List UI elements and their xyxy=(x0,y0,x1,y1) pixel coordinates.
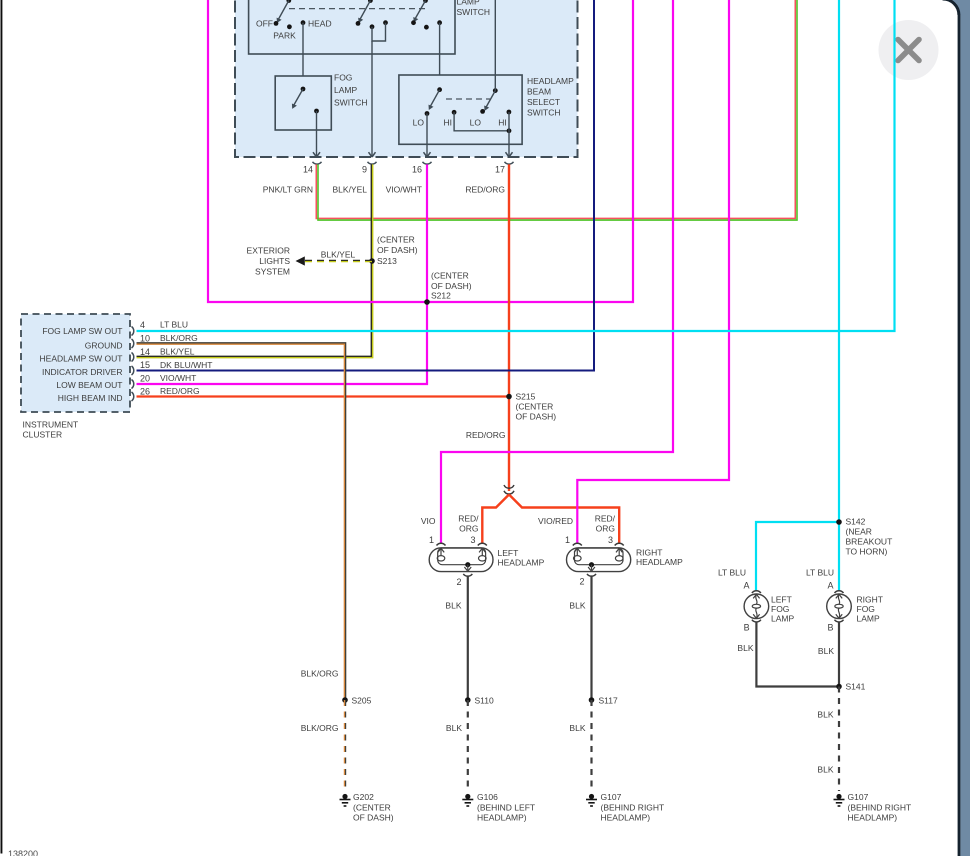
svg-text:OFF: OFF xyxy=(256,19,273,29)
dashed BLK/ORG wire S205 to G202 xyxy=(301,700,346,791)
right fog lamp pin A connector xyxy=(806,568,844,594)
svg-text:OF DASH): OF DASH) xyxy=(516,412,557,422)
right headlamp high filament xyxy=(615,548,623,561)
svg-text:HEAD: HEAD xyxy=(308,19,332,29)
contact HI A with link to pin17 wire xyxy=(444,110,510,131)
svg-text:LT BLU: LT BLU xyxy=(718,568,746,578)
ground G107 fog xyxy=(834,792,912,823)
svg-text:HEADLAMP: HEADLAMP xyxy=(527,76,574,86)
contact HI B xyxy=(498,110,511,128)
svg-text:BLK/YEL: BLK/YEL xyxy=(333,185,368,195)
splice S141 xyxy=(836,682,865,692)
wire beam B feed from top xyxy=(494,0,496,91)
wire VIO/WHT branch horizontal xyxy=(208,0,633,302)
headlamp beam select switch box xyxy=(399,75,574,144)
contact PARK xyxy=(273,24,296,40)
contact HEAD xyxy=(301,19,332,29)
fog switch arm xyxy=(292,87,306,109)
wire BLK left headlamp to S110 xyxy=(445,576,467,700)
svg-text:15: 15 xyxy=(140,360,150,370)
wire group3 to beam select switch xyxy=(439,23,441,90)
splice S117 xyxy=(589,696,618,706)
svg-text:GROUND: GROUND xyxy=(85,340,123,350)
svg-text:RED/: RED/ xyxy=(595,514,616,524)
switch arm 1 (OFF/PARK/HEAD) xyxy=(277,0,292,23)
svg-text:S141: S141 xyxy=(846,682,866,692)
splice S213 xyxy=(369,235,418,267)
svg-text:B: B xyxy=(744,623,750,633)
left fog lamp pin A connector xyxy=(718,568,761,594)
fog switch contact xyxy=(314,109,319,114)
svg-text:VIO/WHT: VIO/WHT xyxy=(386,185,422,195)
svg-text:(CENTER: (CENTER xyxy=(377,235,415,245)
wire PNK/LT GRN pin14 to top right xyxy=(263,0,797,220)
svg-text:2: 2 xyxy=(456,577,461,587)
svg-text:FOG LAMP SW OUT: FOG LAMP SW OUT xyxy=(42,326,122,336)
wire LT BLU fog feed from top xyxy=(756,0,839,591)
ground G107 xyxy=(586,792,664,823)
wire BLK/ORG cluster pin10 to S205 xyxy=(137,343,346,700)
left headlamp low filament xyxy=(437,548,445,561)
svg-text:10: 10 xyxy=(140,334,150,344)
svg-text:16: 16 xyxy=(412,165,422,175)
svg-text:ORG: ORG xyxy=(596,524,615,534)
modal rounded corner xyxy=(942,0,970,15)
right fog lamp xyxy=(827,594,883,624)
svg-text:VIO: VIO xyxy=(421,516,436,526)
dashed BLK wire S110 to G106 xyxy=(446,700,468,791)
svg-text:S212: S212 xyxy=(431,291,451,301)
svg-text:HEADLAMP: HEADLAMP xyxy=(636,557,683,567)
svg-text:INSTRUMENT: INSTRUMENT xyxy=(23,420,79,430)
cluster pin 4 xyxy=(132,320,189,336)
left headlamp xyxy=(429,548,544,572)
svg-text:BLK: BLK xyxy=(817,710,833,720)
dashed BLK/YEL branch to exterior lights system xyxy=(296,250,373,266)
figure number xyxy=(8,849,38,856)
svg-text:G107: G107 xyxy=(848,792,869,802)
contact 2b with L-link wire xyxy=(370,20,388,41)
right headlamp common node and pin2 arrow xyxy=(588,562,595,571)
wire group2 to pin 9 arrow xyxy=(369,41,376,157)
svg-text:BLK: BLK xyxy=(818,646,834,656)
svg-text:LT BLU: LT BLU xyxy=(160,320,188,330)
svg-text:BLK: BLK xyxy=(446,723,462,733)
svg-text:S205: S205 xyxy=(352,696,372,706)
svg-text:G106: G106 xyxy=(477,792,498,802)
svg-text:BLK: BLK xyxy=(737,643,753,653)
svg-text:RED/ORG: RED/ORG xyxy=(160,386,200,396)
wire VIO/RED to right headlamp pin1 xyxy=(538,0,729,544)
left fog lamp pin B connector xyxy=(744,620,761,633)
wire DK BLU/WHT cluster pin15 to top xyxy=(137,0,595,371)
left fog lamp xyxy=(744,594,794,624)
connector pin 17 xyxy=(495,162,514,175)
svg-text:FOG: FOG xyxy=(857,604,875,614)
svg-text:VIO/RED: VIO/RED xyxy=(538,516,573,526)
svg-text:HIGH BEAM IND: HIGH BEAM IND xyxy=(58,393,123,403)
svg-text:LIGHTS: LIGHTS xyxy=(259,256,290,266)
svg-text:HEADLAMP): HEADLAMP) xyxy=(601,813,651,823)
close button xyxy=(879,20,939,80)
svg-text:26: 26 xyxy=(140,387,150,397)
svg-text:DK BLU/WHT: DK BLU/WHT xyxy=(160,360,212,370)
wire RED/ORG cluster pin26 row xyxy=(137,395,510,397)
svg-text:LT BLU: LT BLU xyxy=(806,568,834,578)
svg-text:RED/ORG: RED/ORG xyxy=(466,430,506,440)
wire BLK/YEL pin9 to cluster pin14 xyxy=(137,164,373,357)
svg-text:BLK/YEL: BLK/YEL xyxy=(160,347,195,357)
svg-text:A: A xyxy=(827,581,833,591)
svg-text:A: A xyxy=(743,581,749,591)
svg-text:(CENTER: (CENTER xyxy=(431,271,469,281)
left headlamp pin 2 connector xyxy=(456,574,472,587)
right headlamp xyxy=(567,548,684,572)
beam switch sync dashed link xyxy=(446,98,490,100)
wire LO-A to pin 16 arrow xyxy=(424,114,431,158)
svg-text:S110: S110 xyxy=(475,696,494,706)
contact LO A xyxy=(413,111,430,127)
svg-text:SWITCH: SWITCH xyxy=(457,7,491,17)
right headlamp pin 2 connector xyxy=(579,574,596,587)
contact LO B xyxy=(470,109,485,128)
svg-text:BEAM: BEAM xyxy=(527,86,551,96)
svg-text:BREAKOUT: BREAKOUT xyxy=(846,537,893,547)
svg-text:S215: S215 xyxy=(516,392,536,402)
svg-text:BLK: BLK xyxy=(569,601,585,611)
beam switch arm A xyxy=(429,87,443,110)
splice S212 xyxy=(424,271,472,305)
svg-text:S213: S213 xyxy=(377,256,397,266)
wire RED/ORG pin17 down xyxy=(465,164,509,491)
svg-text:BLK/ORG: BLK/ORG xyxy=(301,723,339,733)
inline connector at red split xyxy=(504,485,514,494)
dashed BLK wire S141 to fog ground xyxy=(817,687,839,792)
svg-text:RED/: RED/ xyxy=(458,514,479,524)
exterior lights system label xyxy=(247,246,291,277)
cluster pin 26 xyxy=(132,386,200,401)
wire RED/ORG split to right headlamp pin3 xyxy=(509,495,619,544)
left headlamp high filament xyxy=(479,548,487,561)
svg-text:S117: S117 xyxy=(599,696,618,706)
contacts group 3 xyxy=(411,20,442,29)
switch arm 3 xyxy=(413,0,428,22)
svg-text:LAMP: LAMP xyxy=(857,614,880,624)
wire VIO/WHT pin16 to cluster pin20 xyxy=(137,164,428,384)
dashed BLK wire S117 to G107 xyxy=(569,700,591,791)
svg-text:138200: 138200 xyxy=(8,849,38,856)
svg-text:SWITCH: SWITCH xyxy=(334,98,368,108)
junction dot HI wires xyxy=(507,128,512,133)
headlamp switch assembly dashed box xyxy=(235,0,578,157)
splice S142 xyxy=(836,517,892,557)
headlamp switch inner box xyxy=(249,0,490,54)
instrument cluster label xyxy=(23,420,79,440)
connector pin 14 xyxy=(303,162,322,175)
ground G106 xyxy=(462,792,535,823)
fog lamp switch box xyxy=(275,73,367,131)
svg-text:(BEHIND RIGHT: (BEHIND RIGHT xyxy=(848,803,912,813)
svg-text:HI: HI xyxy=(498,118,507,128)
svg-text:1: 1 xyxy=(565,535,570,545)
wire HEAD contact to fog lamp switch xyxy=(302,23,304,89)
cluster pin 10 xyxy=(132,333,198,348)
ground G202 xyxy=(340,792,394,823)
svg-text:(CENTER: (CENTER xyxy=(516,402,554,412)
right headlamp pin 3 connector xyxy=(608,535,624,546)
svg-text:17: 17 xyxy=(495,165,505,175)
svg-text:LEFT: LEFT xyxy=(771,595,792,605)
splice S110 xyxy=(465,696,494,706)
svg-text:14: 14 xyxy=(140,347,150,357)
svg-text:2: 2 xyxy=(579,577,584,587)
right fog lamp pin B connector xyxy=(827,620,843,633)
svg-text:RIGHT: RIGHT xyxy=(857,595,883,605)
svg-text:LEFT: LEFT xyxy=(498,548,519,558)
svg-text:SELECT: SELECT xyxy=(527,97,560,107)
contact OFF xyxy=(256,19,278,29)
svg-text:BLK/YEL: BLK/YEL xyxy=(321,250,356,260)
svg-text:FOG: FOG xyxy=(771,604,789,614)
wire BLK left fog to S141 xyxy=(737,622,839,686)
wire VIO to left headlamp pin1 xyxy=(421,0,673,544)
svg-text:G107: G107 xyxy=(601,792,622,802)
svg-text:TO HORN): TO HORN) xyxy=(846,547,888,557)
page side strip xyxy=(958,0,970,856)
svg-text:3: 3 xyxy=(470,535,475,545)
svg-text:HEADLAMP): HEADLAMP) xyxy=(477,813,527,823)
svg-text:PARK: PARK xyxy=(273,30,296,40)
wire LT BLU cluster pin4 to top xyxy=(137,0,895,331)
cluster pin 14 xyxy=(132,347,195,362)
svg-text:(NEAR: (NEAR xyxy=(846,527,872,537)
left headlamp pin 1 connector xyxy=(429,535,446,546)
svg-text:(CENTER: (CENTER xyxy=(353,803,391,813)
svg-text:LAMP: LAMP xyxy=(334,85,357,95)
svg-text:G202: G202 xyxy=(353,792,374,802)
svg-text:HI: HI xyxy=(444,118,453,128)
svg-text:RED/ORG: RED/ORG xyxy=(465,185,505,195)
connector pin 16 xyxy=(412,162,432,175)
wire HI junction to pin 17 arrow xyxy=(506,112,513,157)
svg-text:OF DASH): OF DASH) xyxy=(353,813,394,823)
svg-text:14: 14 xyxy=(303,165,313,175)
svg-text:HEADLAMP: HEADLAMP xyxy=(498,558,545,568)
splice S215 xyxy=(506,392,556,422)
svg-text:OF DASH): OF DASH) xyxy=(431,281,472,291)
instrument cluster box xyxy=(21,314,130,412)
wire BLK right fog to S141 xyxy=(818,622,839,686)
svg-text:OF DASH): OF DASH) xyxy=(377,245,418,255)
svg-text:VIO/WHT: VIO/WHT xyxy=(160,373,196,383)
svg-text:CLUSTER: CLUSTER xyxy=(23,430,63,440)
contact 2a xyxy=(356,21,361,26)
svg-text:LAMP: LAMP xyxy=(771,614,794,624)
wire RED/ORG split to left headlamp pin3 xyxy=(458,495,509,544)
wire fog switch to pin 14 arrow xyxy=(313,111,320,157)
left fog lamp filament xyxy=(752,594,760,618)
svg-text:INDICATOR DRIVER: INDICATOR DRIVER xyxy=(42,367,122,377)
svg-text:SWITCH: SWITCH xyxy=(527,108,561,118)
switch arm 2 xyxy=(358,0,373,23)
right headlamp low filament xyxy=(574,548,582,561)
svg-text:EXTERIOR: EXTERIOR xyxy=(247,246,290,256)
svg-text:(BEHIND LEFT: (BEHIND LEFT xyxy=(477,803,535,813)
svg-text:4: 4 xyxy=(140,320,145,330)
svg-text:20: 20 xyxy=(140,374,150,384)
right headlamp pin 1 connector xyxy=(565,535,582,546)
left headlamp pin 3 connector xyxy=(470,535,486,546)
beam switch arm B xyxy=(484,88,497,111)
svg-text:LAMP: LAMP xyxy=(457,0,480,6)
svg-text:BLK: BLK xyxy=(445,601,461,611)
svg-text:BLK/ORG: BLK/ORG xyxy=(160,333,198,343)
svg-text:S142: S142 xyxy=(846,517,866,527)
svg-text:3: 3 xyxy=(608,535,613,545)
svg-text:SYSTEM: SYSTEM xyxy=(255,266,290,276)
svg-text:LO: LO xyxy=(413,118,425,128)
svg-text:BLK: BLK xyxy=(817,765,833,775)
connector pin 9 xyxy=(362,162,377,175)
svg-text:(BEHIND RIGHT: (BEHIND RIGHT xyxy=(601,803,665,813)
svg-text:1: 1 xyxy=(429,535,434,545)
svg-text:9: 9 xyxy=(362,165,367,175)
right fog lamp filament xyxy=(835,594,843,618)
switch sync dashed link xyxy=(289,8,425,10)
svg-text:ORG: ORG xyxy=(459,524,478,534)
splice S205 xyxy=(342,696,371,706)
svg-text:B: B xyxy=(827,623,833,633)
svg-text:BLK: BLK xyxy=(569,723,585,733)
svg-text:RIGHT: RIGHT xyxy=(636,548,662,558)
cluster pin 15 xyxy=(132,360,213,375)
svg-text:HEADLAMP): HEADLAMP) xyxy=(848,813,898,823)
svg-text:FOG: FOG xyxy=(334,73,352,83)
svg-text:HEADLAMP SW OUT: HEADLAMP SW OUT xyxy=(40,354,123,364)
svg-text:BLK/ORG: BLK/ORG xyxy=(301,669,339,679)
svg-text:LO: LO xyxy=(470,118,482,128)
cluster pin 20 xyxy=(132,373,197,389)
svg-text:PNK/LT GRN: PNK/LT GRN xyxy=(263,185,313,195)
left headlamp common node and pin2 arrow xyxy=(464,562,471,571)
svg-text:LOW BEAM OUT: LOW BEAM OUT xyxy=(56,380,122,390)
wire BLK right headlamp to S117 xyxy=(569,576,591,700)
diagram frame left border xyxy=(1,0,3,854)
